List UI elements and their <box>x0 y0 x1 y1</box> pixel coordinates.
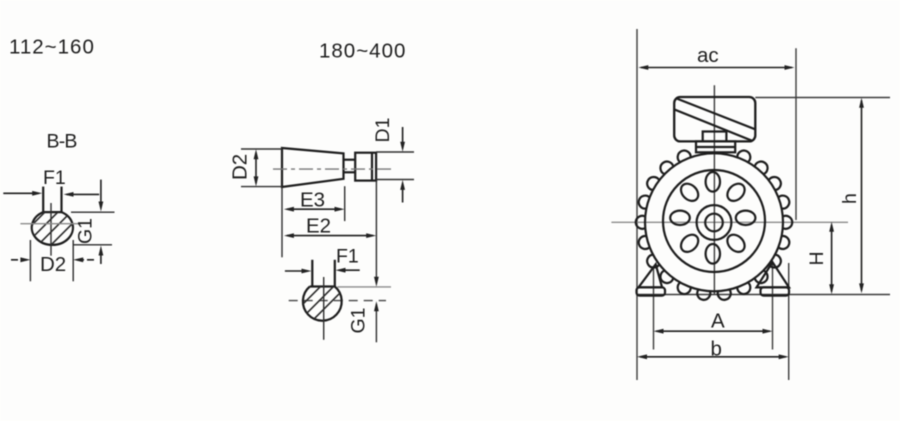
svg-text:D2: D2 <box>40 253 66 276</box>
svg-text:F1: F1 <box>336 246 359 268</box>
svg-text:D1: D1 <box>372 118 394 143</box>
svg-text:h: h <box>839 193 861 204</box>
svg-text:112~160: 112~160 <box>9 36 95 59</box>
svg-text:B-B: B-B <box>47 131 77 153</box>
svg-text:E3: E3 <box>300 189 325 212</box>
svg-text:F1: F1 <box>43 167 66 189</box>
svg-text:ac: ac <box>697 44 719 67</box>
svg-text:E2: E2 <box>306 215 331 238</box>
svg-text:H: H <box>806 251 828 265</box>
svg-text:D2: D2 <box>229 154 252 180</box>
svg-text:A: A <box>711 310 725 333</box>
svg-text:G1: G1 <box>75 218 97 244</box>
svg-text:G1: G1 <box>348 307 370 333</box>
svg-text:180~400: 180~400 <box>319 40 406 63</box>
